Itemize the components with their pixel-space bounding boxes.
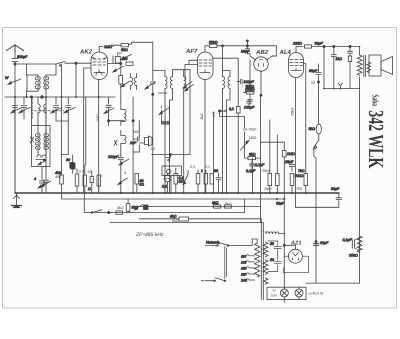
svg-text:1kΩ: 1kΩ bbox=[336, 57, 343, 61]
svg-text:50kΩ: 50kΩ bbox=[262, 169, 271, 173]
ground symbol bbox=[12, 193, 22, 208]
svg-text:50: 50 bbox=[214, 169, 218, 173]
svg-text:8kΩ: 8kΩ bbox=[212, 201, 219, 205]
capacitor C down bbox=[244, 100, 255, 110]
primary top to switch bbox=[252, 239, 257, 243]
capacitor C 0,1uF x252.5 bbox=[250, 158, 265, 193]
svg-text:0,1: 0,1 bbox=[229, 107, 234, 111]
wire x85.8 long vertical bbox=[85, 97, 87, 165]
svg-text:7kΩ: 7kΩ bbox=[298, 169, 305, 173]
wire x139.3 bbox=[138, 121, 140, 152]
resistor R10 50k bbox=[246, 85, 255, 92]
svg-text:50: 50 bbox=[270, 242, 274, 246]
potentiometer arrow AK2 screen bbox=[121, 55, 132, 60]
bus y97 left section bbox=[5, 96, 115, 98]
wire y111 bbox=[220, 110, 227, 112]
gang link dashed horizontal bbox=[34, 110, 64, 112]
svg-text:50μF: 50μF bbox=[331, 187, 340, 191]
svg-text:AB2: AB2 bbox=[255, 49, 269, 56]
capacitor C1 500pF bbox=[12, 52, 28, 64]
svg-text:100: 100 bbox=[133, 130, 139, 134]
svg-text:1MΩ: 1MΩ bbox=[104, 45, 112, 49]
svg-text:0,3: 0,3 bbox=[79, 170, 84, 174]
resistor R13 8k bbox=[244, 148, 260, 160]
node x108 bbox=[108, 120, 124, 126]
node x133 bbox=[132, 120, 134, 122]
svg-text:AF7: AF7 bbox=[185, 48, 198, 55]
primary winding zigzag bbox=[255, 243, 260, 277]
svg-text:0,1: 0,1 bbox=[205, 165, 210, 169]
wire AK2 cathode down bbox=[98, 80, 100, 194]
antenna coil L1 bbox=[27, 64, 41, 91]
node dots on y97 bbox=[14, 96, 100, 98]
svg-text:220: 220 bbox=[240, 273, 247, 277]
heater winding bottom bbox=[263, 278, 268, 284]
svg-text:50Ω: 50Ω bbox=[121, 48, 128, 52]
wire AF7 top cap bbox=[205, 46, 209, 52]
resistor R30 bbox=[196, 170, 200, 193]
osc coupling coil L9 bbox=[131, 74, 133, 90]
wire y116.4 bbox=[220, 111, 245, 128]
svg-text:350Ω: 350Ω bbox=[349, 254, 358, 258]
trimmer CT9 bbox=[145, 79, 155, 193]
wire x72.7 bbox=[72, 155, 74, 174]
wire x120.8 to bus bbox=[120, 148, 122, 156]
tuning lamp box bbox=[162, 166, 182, 193]
resistor R11 50k bbox=[244, 87, 255, 94]
resistor R29 bbox=[174, 168, 184, 193]
wire x219.6 node bbox=[219, 110, 221, 112]
resistor R12 vertical bbox=[229, 58, 240, 193]
resistor R33 dark bbox=[66, 158, 74, 168]
capacitor C 10uF on x316 bbox=[314, 241, 329, 246]
wire x120.8 bottom bbox=[112, 46, 114, 48]
wire y152 stub bbox=[133, 151, 139, 153]
IF1 coil Lc bbox=[184, 70, 186, 94]
svg-text:5kΩ: 5kΩ bbox=[309, 127, 316, 131]
svg-text:1MΩ: 1MΩ bbox=[264, 187, 272, 191]
sub-bus y206.5 bbox=[135, 207, 261, 223]
svg-text:1MΩ: 1MΩ bbox=[249, 136, 257, 140]
main ground bus bbox=[15, 192, 339, 194]
trimmer CT6 bbox=[104, 97, 114, 121]
wire AZ1 sides bbox=[284, 256, 309, 273]
capacitor C 0,1 bbox=[246, 161, 256, 173]
switch W (wave trap) bbox=[5, 76, 21, 85]
sub-bus y207.3 right bbox=[296, 206, 339, 208]
node cap 140pF bbox=[241, 40, 250, 54]
osc coupling coil L10 bbox=[135, 74, 137, 90]
primary taps bbox=[240, 255, 255, 283]
grid-leak fork mark bbox=[338, 83, 342, 88]
oscillator box bbox=[32, 113, 51, 167]
sub-bus y199 bbox=[62, 193, 285, 199]
svg-text:0,6A: 0,6A bbox=[271, 294, 277, 298]
trimmer CT11 bbox=[183, 82, 192, 89]
pickup jack TA bbox=[145, 136, 153, 146]
svg-text:1,5: 1,5 bbox=[150, 147, 155, 151]
IF1 coil La bbox=[165, 71, 167, 94]
wire x83.7 screen bbox=[84, 68, 91, 193]
svg-text:50: 50 bbox=[88, 170, 92, 174]
svg-text:500pF: 500pF bbox=[17, 55, 28, 59]
wire y88.5 line bbox=[324, 88, 360, 90]
svg-text:400: 400 bbox=[55, 175, 61, 179]
svg-text:1: 1 bbox=[201, 169, 203, 173]
switch S6 below bbox=[166, 155, 170, 162]
svg-text:ZF=485 kHz: ZF=485 kHz bbox=[135, 232, 164, 238]
resistor R17 1M bbox=[283, 142, 295, 289]
wire x61.5 below bbox=[61, 97, 63, 175]
wire y142 link bbox=[261, 141, 285, 143]
capacitor C row x218.5 bbox=[214, 169, 221, 192]
svg-text:100pF: 100pF bbox=[244, 80, 255, 84]
resistor R6 bbox=[83, 165, 87, 193]
svg-text:kΩ: kΩ bbox=[140, 183, 145, 187]
svg-text:30μF: 30μF bbox=[315, 42, 324, 46]
wire AL4 top cap bbox=[296, 47, 303, 53]
output transformer core bbox=[364, 56, 366, 77]
svg-text:240: 240 bbox=[240, 279, 247, 283]
resistor R28 50k bbox=[135, 174, 144, 194]
output transformer primary bbox=[357, 55, 362, 76]
trimmer CT3 bbox=[51, 97, 62, 113]
wire AK2 top cap bbox=[99, 47, 103, 53]
svg-text:110: 110 bbox=[241, 255, 246, 259]
resistor R32 bbox=[210, 174, 213, 185]
wire AB2 top left diag bbox=[247, 54, 276, 60]
capacitor screen AK2 bbox=[115, 53, 127, 63]
trimmer CT12 bbox=[121, 81, 130, 87]
svg-text:8kΩ: 8kΩ bbox=[225, 202, 232, 206]
tube AF7 bbox=[198, 52, 214, 80]
svg-text:700Ω: 700Ω bbox=[295, 174, 304, 178]
resistor R19 bbox=[268, 120, 272, 193]
capacitor C 50uF right bbox=[331, 187, 341, 206]
wire x213.4 bbox=[212, 112, 214, 193]
oscillator coil L6 bbox=[44, 133, 46, 155]
wire top AF7 line bbox=[217, 45, 276, 47]
lamp LP1 bbox=[280, 289, 288, 297]
resistor R2 50ohm bbox=[112, 44, 129, 52]
field coil choke bbox=[343, 236, 363, 258]
svg-text:50kΩ: 50kΩ bbox=[246, 87, 255, 91]
wire IF1 bottoms bbox=[165, 94, 184, 194]
capacitor C AB2 bbox=[248, 94, 252, 104]
wire AF7 grid left bbox=[185, 60, 198, 80]
wire to bus x120.8 bbox=[120, 167, 122, 194]
bottom line y283 bbox=[306, 282, 360, 284]
lamp LP2 bbox=[295, 289, 303, 297]
sub-bus y218.8 heater bbox=[139, 219, 261, 232]
grid wire AK2 left bbox=[75, 63, 77, 97]
svg-text:Saba: Saba bbox=[371, 95, 381, 107]
capacitor C AL4 cathode 50uF bbox=[309, 64, 321, 89]
svg-text:4: 4 bbox=[124, 171, 126, 175]
IF transformer 2 coil La bbox=[223, 71, 225, 94]
wire IF2 bottoms bbox=[223, 94, 231, 194]
svg-text:4kΩ: 4kΩ bbox=[200, 113, 204, 120]
resistor R21 bbox=[212, 201, 221, 208]
wire AB2 left column bbox=[249, 60, 251, 92]
capacitor C tone x333.8 bbox=[331, 45, 342, 88]
resistor R15 7k bbox=[298, 169, 308, 193]
resistor R4 bbox=[55, 171, 63, 193]
resistor R23 box bbox=[116, 211, 123, 214]
node B+ top bbox=[323, 45, 325, 47]
svg-text:50: 50 bbox=[311, 81, 315, 85]
tube AZ1 bbox=[288, 249, 302, 263]
coupling coil L7 bbox=[121, 97, 126, 126]
svg-text:1,5: 1,5 bbox=[212, 112, 216, 117]
resistor R18 700 bbox=[290, 174, 303, 194]
resistor R24 vertical 5k bbox=[126, 199, 138, 213]
wire osc box bottom to bus bbox=[41, 167, 43, 177]
capacitor C pickup bbox=[130, 137, 144, 145]
svg-text:W: W bbox=[5, 76, 9, 80]
HT winding upper bbox=[263, 242, 268, 257]
electrolytic C black bbox=[71, 164, 76, 170]
svg-text:2: 2 bbox=[100, 174, 103, 178]
tuning coil L3 bbox=[38, 97, 40, 113]
trimmer C osc bbox=[34, 176, 47, 193]
wire AL4 cathode bbox=[295, 78, 297, 208]
tube AB2 bbox=[254, 57, 268, 71]
speaker bbox=[369, 55, 393, 76]
wire AL4 screen right bbox=[304, 64, 306, 174]
wire y154.6 bbox=[152, 70, 190, 155]
svg-text:8kΩ: 8kΩ bbox=[249, 153, 256, 157]
resistor R3 bbox=[119, 62, 123, 97]
wire AB2 bottom bbox=[260, 71, 262, 95]
wire to AK2 input bbox=[68, 62, 92, 64]
coupling coil L8 bbox=[121, 131, 126, 148]
svg-text:Netzsch.: Netzsch. bbox=[206, 241, 220, 245]
wire top AL4 line bbox=[312, 46, 361, 48]
oscillator coil L5 bbox=[38, 133, 40, 155]
capacitor C AL4 25uF bbox=[284, 160, 295, 171]
svg-text:25μF: 25μF bbox=[284, 160, 294, 164]
resistor R5 bbox=[75, 169, 79, 193]
wire B+ drop x324 bbox=[323, 47, 325, 89]
tube AK2 bbox=[91, 52, 108, 80]
resistor R14 220 bbox=[305, 45, 312, 48]
svg-text:ca.40,5 W: ca.40,5 W bbox=[308, 292, 324, 296]
resistor R7 small bbox=[88, 171, 94, 193]
antenna bbox=[7, 45, 24, 52]
wire corner x221.5 down bbox=[222, 46, 224, 71]
wire AZ1 top bbox=[284, 245, 295, 249]
resistor R27 box bbox=[126, 62, 133, 65]
svg-text:8kΩ: 8kΩ bbox=[170, 215, 177, 219]
heater winding AZ1 top bbox=[266, 232, 285, 234]
resistor R31 bbox=[201, 169, 208, 193]
wire left bus x26 bbox=[26, 91, 28, 97]
wire IF2 top jog bbox=[223, 70, 231, 72]
wire AVC x46.5 bbox=[45, 97, 47, 176]
IF1 coil Lb bbox=[171, 70, 173, 94]
wire AB2 right up to bus bbox=[272, 46, 276, 56]
capacitor C snubber x350 bbox=[348, 45, 353, 88]
wire antenna horizontal bbox=[15, 63, 56, 65]
meter circle A bbox=[162, 173, 171, 193]
wire antenna lead down bbox=[14, 64, 16, 193]
trimmer CT2 bbox=[19, 97, 30, 113]
trimmer CT7 bbox=[108, 155, 129, 167]
svg-text:150: 150 bbox=[241, 267, 247, 271]
wire AF7 cathode bbox=[204, 80, 206, 194]
node AB2 out bbox=[260, 94, 262, 96]
mains cord verticals bbox=[225, 246, 227, 278]
svg-text:4: 4 bbox=[34, 177, 36, 181]
capacitor C dark blob bbox=[144, 205, 149, 210]
wire x244.4 drop bbox=[243, 199, 245, 213]
HT winding lower bbox=[263, 260, 268, 275]
svg-text:AL4: AL4 bbox=[279, 49, 292, 56]
resistor R16 oval right bbox=[309, 89, 322, 141]
switch S3 bbox=[114, 141, 117, 146]
resistor R22 bbox=[224, 205, 231, 208]
wire x260.5 bbox=[260, 95, 262, 206]
switch S2 on box bbox=[30, 137, 34, 143]
trimmer CT8 bbox=[41, 176, 51, 193]
svg-text:50μF: 50μF bbox=[309, 69, 318, 73]
svg-text:1MΩ: 1MΩ bbox=[96, 114, 100, 122]
node AZ1 bbox=[283, 244, 285, 246]
trimmer CT1 bbox=[11, 97, 22, 113]
resistor R20 bbox=[276, 135, 280, 193]
svg-text:100pF: 100pF bbox=[244, 106, 255, 110]
resistor R9 bbox=[209, 40, 218, 47]
svg-text:342 WLK: 342 WLK bbox=[364, 110, 388, 168]
svg-text:1nF: 1nF bbox=[130, 141, 137, 145]
wire x172.5 jog bbox=[170, 100, 173, 193]
resistor R8 bbox=[97, 175, 101, 193]
node A1 bbox=[14, 63, 16, 65]
output transformer secondary bbox=[367, 62, 371, 72]
node y154.6 bbox=[169, 154, 171, 156]
IF transformer 1 box bbox=[153, 70, 190, 93]
capacitor C 100pF bbox=[237, 79, 254, 86]
wire x61.5 from switch area down bbox=[61, 64, 63, 97]
svg-text:60μF: 60μF bbox=[276, 202, 285, 206]
trimmer CT14 below y199 bbox=[135, 205, 143, 211]
switch S5 mains-side bbox=[91, 210, 110, 214]
node y88.5 bbox=[323, 88, 341, 90]
mains switch Netzsch bbox=[206, 239, 253, 246]
right rail bbox=[359, 47, 361, 284]
padder caps bottom bbox=[36, 155, 46, 165]
svg-text:220Ω: 220Ω bbox=[292, 42, 302, 46]
node big at 42 bbox=[41, 96, 44, 99]
antenna coil L2 bbox=[44, 64, 56, 97]
wire x133 long vertical bbox=[132, 97, 134, 193]
wire AF7 anode bbox=[213, 57, 238, 59]
svg-text:0,1μF: 0,1μF bbox=[255, 163, 265, 167]
svg-text:4V: 4V bbox=[272, 289, 276, 293]
node AK2 anode bbox=[108, 56, 121, 64]
svg-text:50: 50 bbox=[270, 258, 274, 262]
wire gang verticals to bus bbox=[15, 97, 68, 193]
sub-bus y222.5 heater bbox=[110, 223, 263, 232]
svg-text:AK2: AK2 bbox=[79, 49, 93, 56]
svg-text:10μF: 10μF bbox=[320, 241, 329, 245]
trimmer CT5 bbox=[113, 66, 124, 72]
power transformer core bbox=[261, 232, 263, 300]
svg-text:0,1μF: 0,1μF bbox=[343, 238, 353, 242]
svg-text:NSpF: NSpF bbox=[241, 50, 250, 54]
trimmer CT4 bbox=[64, 97, 75, 113]
svg-text:Ω: Ω bbox=[88, 187, 91, 191]
tuning coil L4 bbox=[44, 97, 46, 113]
svg-text:700: 700 bbox=[296, 187, 302, 191]
trimmer CT13 row bbox=[118, 178, 128, 185]
svg-text:50kΩ: 50kΩ bbox=[209, 40, 218, 44]
wire lamp feeds bbox=[284, 287, 299, 302]
potentiometer P1 bbox=[241, 132, 250, 150]
svg-text:50-70pF: 50-70pF bbox=[243, 128, 257, 132]
resistor R25 8k bbox=[170, 215, 189, 222]
misc tiny labels bbox=[55, 81, 315, 223]
gang link dashed bbox=[31, 98, 33, 119]
svg-text:0,1: 0,1 bbox=[162, 185, 167, 189]
svg-text:1MΩ: 1MΩ bbox=[287, 152, 295, 156]
mains switch pole 2 bbox=[201, 278, 225, 282]
wire top line AK2 to corner bbox=[129, 42, 153, 79]
row of bus node dots bbox=[120, 192, 307, 194]
switch S7 row bbox=[183, 171, 188, 185]
svg-text:20kΩ: 20kΩ bbox=[291, 107, 295, 117]
svg-text:100pF: 100pF bbox=[108, 155, 119, 159]
switch S4 right bbox=[314, 140, 319, 283]
svg-text:30: 30 bbox=[66, 158, 70, 162]
tube AL4 bbox=[289, 53, 304, 78]
svg-text:4kΩ: 4kΩ bbox=[117, 206, 124, 210]
trimmer CT10 bbox=[185, 85, 194, 92]
rectifier cap column bbox=[268, 241, 281, 272]
node dots y199 bbox=[276, 198, 285, 200]
svg-text:1,5: 1,5 bbox=[221, 109, 226, 113]
svg-text:125: 125 bbox=[241, 261, 247, 265]
lamp box bbox=[267, 287, 306, 299]
svg-text:0,1μF: 0,1μF bbox=[246, 169, 256, 173]
switch S1 bbox=[56, 62, 68, 67]
svg-text:6,3: 6,3 bbox=[190, 165, 195, 169]
IF transformer 2 coil Lb bbox=[228, 71, 230, 94]
sub-bus y212.5 heater bbox=[84, 193, 244, 213]
IF1 secondary trimmer bbox=[159, 106, 170, 126]
